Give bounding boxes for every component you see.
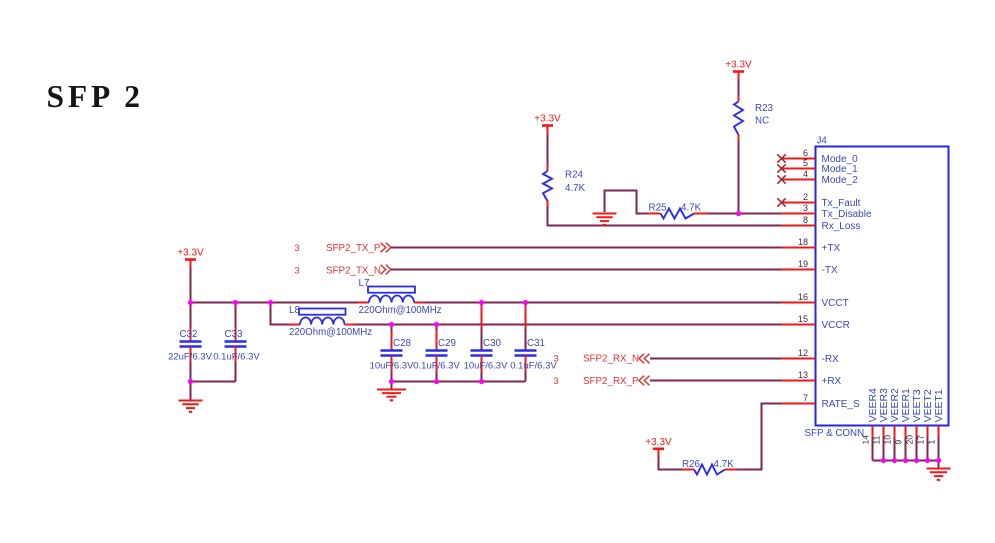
svg-text:VEET2: VEET2 [923,389,934,422]
svg-text:3: 3 [294,243,299,254]
svg-text:J4: J4 [817,136,828,147]
svg-text:Rx_Loss: Rx_Loss [822,221,861,232]
pin 13 +RX [782,370,842,387]
pin 14 VEER4 [860,388,879,460]
svg-text:10uF/6.3V: 10uF/6.3V [370,360,414,371]
svg-text:5: 5 [803,158,808,168]
svg-text:R24: R24 [565,170,584,181]
svg-text:SFP 2: SFP 2 [47,79,144,114]
svg-text:Mode_2: Mode_2 [822,175,859,186]
svg-text:L8: L8 [289,305,300,316]
junction rail/C31 [523,300,528,305]
wire ground to R25 [605,191,649,214]
svg-text:L7: L7 [359,278,370,289]
pin 20 VEET3 [904,389,923,460]
svg-text:3: 3 [553,376,558,387]
net SFP2_TX_N [294,265,391,277]
pin 7 RATE_S [782,393,860,410]
svg-text:C31: C31 [527,338,545,349]
power +3.3V (R24) [534,114,561,136]
svg-text:SFP2_TX_P: SFP2_TX_P [326,243,381,254]
svg-text:4.7K: 4.7K [681,203,702,214]
no-connect X pin 6 [777,154,785,162]
wire RATE_S pin 7 to R26 [737,404,782,470]
svg-text:7: 7 [803,393,808,403]
svg-text:+3.3V: +3.3V [534,114,561,125]
svg-text:C29: C29 [438,338,456,349]
svg-text:+3.3V: +3.3V [177,248,204,259]
pin 16 VCCT [782,292,849,309]
svg-text:3: 3 [803,203,808,213]
wire to ground (C32) [190,382,192,401]
capacitor C31 0.1uF [510,303,557,382]
wire R24 to Rx_Loss pin 8 [548,207,782,226]
wire R23 to Tx_Disable net [738,141,740,214]
svg-text:Mode_1: Mode_1 [822,164,859,175]
wire C32-C33 bottom [191,381,236,383]
junction R23/R25/pin3 [736,211,741,216]
svg-text:4.7K: 4.7K [565,183,586,194]
power +3.3V (rail) [177,248,204,269]
junction rail/VCCR branch [268,300,273,305]
svg-text:SFP2_RX_N: SFP2_RX_N [583,354,639,365]
svg-text:RATE_S: RATE_S [822,399,860,410]
ground (J4) [927,469,951,480]
pin 6 Mode_0 [782,148,859,165]
junction bus x=916.5 [914,458,919,463]
svg-text:13: 13 [798,370,808,380]
wire VCCR branch [271,303,290,325]
pin 4 Mode_2 [782,169,859,186]
svg-text:VCCT: VCCT [822,298,849,309]
svg-text:VEER3: VEER3 [879,388,890,422]
wire VCCR to pin 15 [356,324,782,326]
junction bus x=938.5 [936,458,941,463]
pin 15 VCCR [782,314,850,331]
svg-text:15: 15 [798,314,808,324]
svg-text:Tx_Disable: Tx_Disable [822,209,872,220]
svg-text:3: 3 [294,265,299,276]
svg-text:4: 4 [803,169,808,179]
pin 2 Tx_Fault [782,192,861,209]
svg-text:C30: C30 [483,338,502,349]
junction C30 bottom [479,379,484,384]
pin 18 +TX [782,237,841,254]
ground (near R25) [593,214,617,225]
pin 11 VEER3 [871,388,890,460]
pin 17 VEET2 [915,389,934,460]
pin 8 Rx_Loss [782,215,861,232]
junction VCCR/C29 [434,322,439,327]
junction rail/C30 [479,300,484,305]
no-connect X pin 5 [777,164,785,172]
svg-text:C32: C32 [180,329,198,340]
junction VCCR/C28 [389,322,394,327]
wire bus to ground [938,461,940,469]
svg-text:+3.3V: +3.3V [725,60,752,71]
pin 5 Mode_1 [782,158,859,175]
svg-text:VEER2: VEER2 [890,388,901,422]
svg-text:VEER1: VEER1 [901,388,912,422]
power +3.3V (R23) [725,60,752,81]
svg-text:4.7K: 4.7K [714,459,735,470]
svg-text:11: 11 [871,435,881,444]
svg-text:R25: R25 [649,203,668,214]
svg-text:-TX: -TX [822,265,838,276]
junction bus x=927.5 [925,458,930,463]
net SFP2_TX_P [294,243,391,254]
capacitor C29 0.1uF [413,325,460,382]
net SFP2_RX_P [553,376,649,387]
pin 19 -TX [782,259,838,276]
resistor R26 4.7K [682,459,737,475]
svg-text:8: 8 [803,215,808,225]
svg-text:20: 20 [904,435,914,445]
wire VCCT rail right to pin 16 [425,302,782,304]
wire SFP2_TX_N to pin 19 [391,269,782,271]
wire power to R24 [547,134,549,166]
svg-text:NC: NC [755,116,769,127]
svg-text:R26: R26 [682,459,701,470]
svg-text:1: 1 [926,440,936,445]
svg-text:VEER4: VEER4 [868,388,879,422]
resistor R24 4.7K [543,165,586,207]
wire SFP2_RX_P to pin 13 [650,380,782,382]
capacitor C32 22uF [168,303,212,382]
junction rail/power [188,300,193,305]
svg-text:16: 16 [798,292,808,302]
svg-text:+3.3V: +3.3V [645,437,672,448]
svg-text:10uF/6.3V: 10uF/6.3V [464,360,508,371]
wire bottom ground bus [873,460,939,462]
wire R25 to Tx_Disable pin 3 [707,213,782,215]
resistor R25 4.7K [647,203,707,219]
junction bus x=894.5 [892,458,897,463]
junction C32/ground [188,379,193,384]
wire power to R23 [738,80,740,97]
connector J4 box [816,147,949,426]
svg-text:0.1uF/6.3V: 0.1uF/6.3V [413,360,460,371]
svg-text:9: 9 [893,440,903,445]
junction bus x=883.5 [881,458,886,463]
svg-text:220Ohm@100MHz: 220Ohm@100MHz [289,327,372,338]
svg-text:22uF/6.3V: 22uF/6.3V [168,351,212,362]
junction rail/C33 [233,300,238,305]
svg-text:2: 2 [803,192,808,202]
svg-text:VEET1: VEET1 [934,389,945,422]
inductor L7 [358,302,425,304]
pin 10 VEER2 [882,388,901,460]
svg-text:3: 3 [553,354,558,365]
wire SFP2_RX_N to pin 12 [650,358,782,360]
no-connect X pin 4 [777,175,785,183]
svg-text:6: 6 [803,148,808,158]
wire SFP2_TX_P to pin 18 [391,247,782,249]
svg-text:C28: C28 [393,338,412,349]
svg-text:+TX: +TX [822,243,841,254]
svg-text:18: 18 [798,237,808,247]
wire to ground (C28) [391,382,393,390]
svg-text:C33: C33 [225,329,244,340]
wire VCCT rail left [191,302,359,304]
svg-text:0.1uF/6.3V: 0.1uF/6.3V [213,351,260,362]
svg-text:220Ohm@100MHz: 220Ohm@100MHz [359,305,442,316]
svg-text:17: 17 [915,435,925,445]
inductor L8 [289,324,356,326]
wire power to rail [190,268,192,303]
ground (C28) [377,390,406,401]
svg-text:VEET3: VEET3 [912,389,923,422]
pin 1 VEET1 [926,389,945,460]
resistor R23 NC [734,96,774,141]
svg-text:14: 14 [860,435,870,445]
no-connect X pin 2 [777,198,785,206]
junction C29 bottom [434,379,439,384]
svg-text:12: 12 [798,348,808,358]
svg-text:SFP & CONN: SFP & CONN [805,428,865,439]
wire caps bottom bus [392,381,526,383]
svg-text:R23: R23 [755,103,774,114]
pin 12 -RX [782,348,840,365]
svg-text:Tx_Fault: Tx_Fault [822,198,861,209]
svg-text:19: 19 [798,259,808,269]
svg-text:SFP2_TX_N: SFP2_TX_N [326,265,381,276]
svg-text:-RX: -RX [822,354,840,365]
svg-text:+RX: +RX [822,376,842,387]
svg-text:VCCR: VCCR [822,320,850,331]
net SFP2_RX_N [553,354,649,365]
svg-text:0.1uF/6.3V: 0.1uF/6.3V [510,360,557,371]
pin 9 VEER1 [893,388,912,460]
svg-text:10: 10 [882,435,892,445]
capacitor C30 10uF [464,303,508,382]
ground (C32) [179,401,203,412]
junction C28/ground [389,379,394,384]
power +3.3V (R26) [645,437,672,458]
svg-text:SFP2_RX_P: SFP2_RX_P [583,376,639,387]
wire power to R26 [659,457,683,470]
capacitor C33 0.1uF [213,303,260,382]
pin 3 Tx_Disable [782,203,872,220]
capacitor C28 10uF [370,325,414,382]
junction bus x=905.5 [903,458,908,463]
